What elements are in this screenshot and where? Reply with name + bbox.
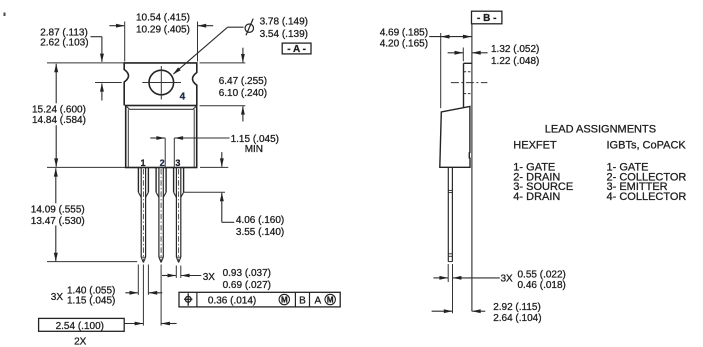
svg-text:4.20 (.165): 4.20 (.165) <box>380 39 428 50</box>
body inner chamfer line top <box>126 106 196 109</box>
svg-text:1: 1 <box>140 158 145 168</box>
extension line hole centerline toward left <box>95 82 122 84</box>
svg-text:2X: 2X <box>74 337 87 347</box>
svg-text:- A -: - A - <box>287 44 306 55</box>
datum B plane line <box>471 24 473 312</box>
dimension line 14.09 lower segment <box>55 226 57 262</box>
svg-text:3X: 3X <box>203 272 216 283</box>
extension line tab top toward right <box>200 62 246 64</box>
svg-text:2.92 (.115): 2.92 (.115) <box>493 302 541 313</box>
dimension line 0.93 left arrow <box>162 275 176 277</box>
svg-text:IGBTs, CoPACK: IGBTs, CoPACK <box>607 139 687 151</box>
M modifier circle 2 <box>325 294 335 304</box>
arrow down to tab top <box>242 48 244 63</box>
arrow down to body bottom <box>221 152 223 167</box>
dimension line 1.40 left arrow <box>125 292 138 294</box>
svg-text:3X: 3X <box>501 274 514 285</box>
side view: lead <box>447 168 449 262</box>
extension line lead back face <box>452 264 454 313</box>
side view: molded body outline <box>440 106 470 167</box>
svg-text:2.62 (.103): 2.62 (.103) <box>40 38 88 49</box>
svg-text:M: M <box>281 296 288 305</box>
svg-text:4: 4 <box>180 91 186 102</box>
lead crimp marks upper <box>448 189 452 191</box>
dimension line 1.32 left arrow <box>448 52 463 54</box>
extension line lead3 left narrow edge <box>175 266 177 278</box>
svg-text:4- COLLECTOR: 4- COLLECTOR <box>607 191 687 203</box>
extension line lead3 right narrow edge <box>180 266 182 278</box>
arrow up to lead shoulder <box>221 193 223 223</box>
hidden line hole top <box>464 71 472 73</box>
extension line tab top-left corner <box>124 22 126 62</box>
datum B flag <box>472 11 502 24</box>
svg-text:14.84 (.584): 14.84 (.584) <box>32 115 86 126</box>
front view: mounting tab outline with side notches <box>124 63 197 106</box>
front view: molded body outline <box>126 106 197 168</box>
svg-text:M: M <box>327 296 334 305</box>
dimension line 0.93 right leader <box>181 275 201 277</box>
hole centerline side view <box>451 82 488 84</box>
svg-text:3.54 (.139): 3.54 (.139) <box>260 29 308 40</box>
svg-text:3.55 (.140): 3.55 (.140) <box>236 227 284 238</box>
svg-text:14.09 (.555): 14.09 (.555) <box>31 205 85 216</box>
extension line tab front face upper <box>462 48 464 62</box>
dimension line 4.69 <box>429 36 471 38</box>
dimension line 0.55 left arrow <box>433 277 447 279</box>
dimension line 10.54 left <box>109 25 124 27</box>
svg-text:13.47 (.530): 13.47 (.530) <box>31 216 85 227</box>
dimension line 2.54 right arrow <box>161 323 176 325</box>
leader line hole diameter <box>228 26 244 28</box>
extension line body bottom toward left <box>47 166 125 168</box>
leader 2.87 horizontal <box>91 36 102 38</box>
dimension line 2.54 left arrow <box>124 323 143 325</box>
dimension line 2.92 left arrow <box>432 310 453 312</box>
extension line lead gap right <box>173 138 175 167</box>
svg-text:2.54 (.100): 2.54 (.100) <box>56 321 104 332</box>
arrow up to body top <box>242 106 244 121</box>
elbow to 4.06 text <box>222 221 235 223</box>
lead 3 (source) <box>173 168 175 193</box>
body inner line right <box>193 109 195 167</box>
svg-text:3.78 (.149): 3.78 (.149) <box>260 16 308 27</box>
extension line lead gap left <box>164 138 166 167</box>
svg-text:2: 2 <box>160 158 165 168</box>
svg-text:1.15 (.045): 1.15 (.045) <box>67 296 115 307</box>
svg-text:- B -: - B - <box>477 13 496 24</box>
hole horizontal centerline <box>142 82 181 84</box>
dimension line 14.09 upper segment <box>55 168 57 203</box>
leader 2.87 vertical with down arrow <box>101 37 103 62</box>
dimension line 15.24 lower segment <box>55 125 57 167</box>
dimension line 1.40 right arrow <box>149 292 163 294</box>
svg-text:15.24 (.600): 15.24 (.600) <box>32 104 86 115</box>
svg-text:0.69 (.027): 0.69 (.027) <box>223 280 271 291</box>
svg-text:3X: 3X <box>51 292 64 303</box>
datum A flag <box>282 43 311 54</box>
extension line lead tips toward left <box>47 261 137 263</box>
svg-text:LEAD ASSIGNMENTS: LEAD ASSIGNMENTS <box>545 124 656 136</box>
dimension line 1.15 right leader <box>175 137 230 139</box>
extension line lead1 center <box>142 265 144 326</box>
dimension line 10.54 right <box>198 25 213 27</box>
position tolerance symbol <box>185 296 191 302</box>
dimension line 2.92 right arrow <box>472 310 485 312</box>
extension line lead1 left edge <box>137 265 139 295</box>
svg-text:10.29 (.405): 10.29 (.405) <box>136 25 190 36</box>
extension line lead front face <box>447 264 449 282</box>
side view: tab top edge <box>464 62 472 64</box>
svg-text:3: 3 <box>175 158 180 168</box>
svg-text:MIN: MIN <box>245 144 263 155</box>
front view: mounting hole <box>149 70 174 95</box>
dimension line 1.32 right arrow <box>472 52 487 54</box>
side view: tab front face <box>463 63 465 107</box>
extension line lead2 center <box>160 265 162 326</box>
lead crimp marks lower <box>448 253 452 255</box>
svg-text:4.06 (.160): 4.06 (.160) <box>236 215 284 226</box>
extension line body bottom toward right <box>200 166 228 168</box>
svg-text:6.47 (.255): 6.47 (.255) <box>219 76 267 87</box>
svg-text:0.46 (.018): 0.46 (.018) <box>518 280 566 291</box>
svg-text:10.54 (.415): 10.54 (.415) <box>136 12 190 23</box>
feature control frame box <box>179 292 340 307</box>
hole vertical centerline <box>160 66 162 100</box>
hidden line hole bottom <box>464 93 472 95</box>
extension line tab top-right corner <box>197 22 199 62</box>
svg-text:A: A <box>314 295 321 306</box>
svg-text:6.10 (.240): 6.10 (.240) <box>219 88 267 99</box>
diameter symbol <box>245 24 253 32</box>
svg-text:0.55 (.022): 0.55 (.022) <box>518 269 566 280</box>
dimension line 15.24 upper segment <box>55 64 57 104</box>
svg-text:0.36 (.014): 0.36 (.014) <box>208 295 256 306</box>
extension line lead shoulder <box>184 191 225 193</box>
M modifier circle 1 <box>279 294 289 304</box>
extension line tab top toward left <box>47 62 124 64</box>
svg-text:1.22 (.048): 1.22 (.048) <box>491 56 539 67</box>
svg-text:2.64 (.104): 2.64 (.104) <box>493 313 541 324</box>
svg-text:4.69 (.185): 4.69 (.185) <box>380 28 428 39</box>
lead 2 (drain) <box>155 168 157 193</box>
dimension line 1.15 left arrow <box>150 137 165 139</box>
svg-text:4- DRAIN: 4- DRAIN <box>513 191 560 203</box>
extension line body front face <box>440 33 442 108</box>
svg-text:0.93 (.037): 0.93 (.037) <box>223 268 271 279</box>
body inner line left <box>127 109 129 167</box>
up arrow to hole centerline <box>101 84 103 101</box>
dimension line 0.55 right leader <box>453 277 500 279</box>
basic dimension box 2.54 <box>39 318 125 331</box>
extension line body top toward right <box>200 105 246 107</box>
extension line lead1 right edge <box>147 265 149 295</box>
stray scan speck <box>4 13 6 17</box>
lead 1 (gate) <box>137 168 139 193</box>
svg-text:HEXFET: HEXFET <box>513 139 557 151</box>
svg-text:B: B <box>299 295 306 306</box>
svg-text:1.32 (.052): 1.32 (.052) <box>491 44 539 55</box>
